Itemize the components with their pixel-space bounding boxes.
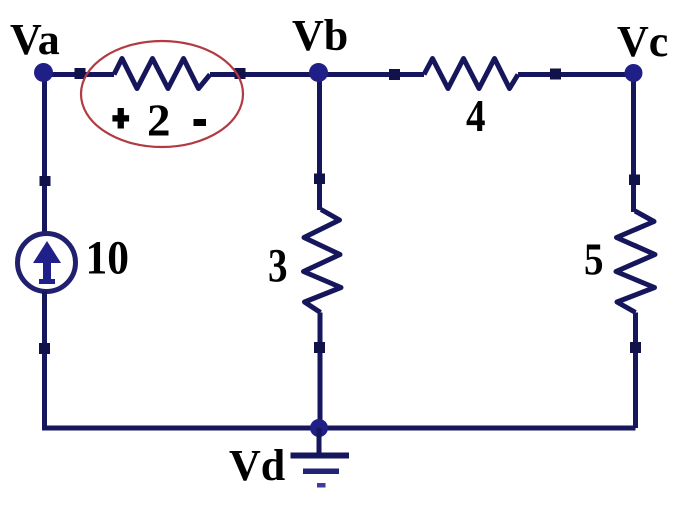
- junction square on top wire left of R4: [389, 69, 400, 80]
- wire top: R2 to Vb: [210, 72, 317, 77]
- label minus sign: [194, 119, 207, 126]
- junction square left branch lower: [39, 343, 50, 354]
- node Vd dot: [310, 419, 328, 437]
- junction square on top wire right of R4: [550, 69, 561, 80]
- wire Vb down to R3: [317, 74, 322, 210]
- svg-text:10: 10: [86, 232, 130, 285]
- junction square on top wire left of R2: [75, 68, 86, 79]
- svg-text:2: 2: [147, 95, 171, 146]
- wire top: Vb to R4: [320, 72, 424, 77]
- svg-text:3: 3: [268, 240, 288, 293]
- junction square Vb branch lower: [314, 342, 325, 353]
- resistor R3: [304, 210, 342, 313]
- svg-text:4: 4: [466, 90, 486, 141]
- current source I1: [18, 234, 76, 292]
- svg-text:Va: Va: [10, 15, 60, 64]
- resistor R5: [616, 211, 655, 313]
- junction square Vb branch upper: [314, 174, 325, 185]
- wire R3 to bottom: [318, 313, 323, 429]
- svg-text:Vc: Vc: [617, 17, 668, 66]
- red ellipse highlight around R2: [81, 41, 243, 147]
- wire Vc down to R5: [631, 74, 636, 212]
- label plus sign: [112, 108, 129, 129]
- svg-text:Vb: Vb: [292, 11, 348, 60]
- wire top: R4 to Vc: [518, 72, 633, 77]
- node Vb dot: [309, 63, 328, 82]
- svg-text:5: 5: [584, 234, 604, 285]
- junction square Vc branch lower: [630, 342, 641, 353]
- wire top: Va to R2: [44, 72, 114, 77]
- wire left: current source to bottom: [42, 291, 47, 428]
- svg-text:Vd: Vd: [229, 441, 285, 490]
- ground bar 3: [317, 483, 326, 488]
- ground stub wire: [317, 428, 322, 453]
- resistor R4: [424, 59, 518, 89]
- wire bottom: [42, 426, 636, 431]
- ground bar 1: [291, 453, 350, 459]
- ground bar 2: [303, 469, 339, 475]
- wire left: Va down to current source: [42, 73, 47, 234]
- junction square on top wire right of R2: [235, 68, 246, 79]
- junction square Vc branch upper: [629, 175, 640, 186]
- junction square left branch upper: [40, 176, 51, 186]
- resistor R2: [114, 59, 210, 89]
- node Vc dot: [625, 64, 643, 82]
- wire R5 to bottom: [633, 313, 638, 429]
- node Va dot: [34, 63, 53, 82]
